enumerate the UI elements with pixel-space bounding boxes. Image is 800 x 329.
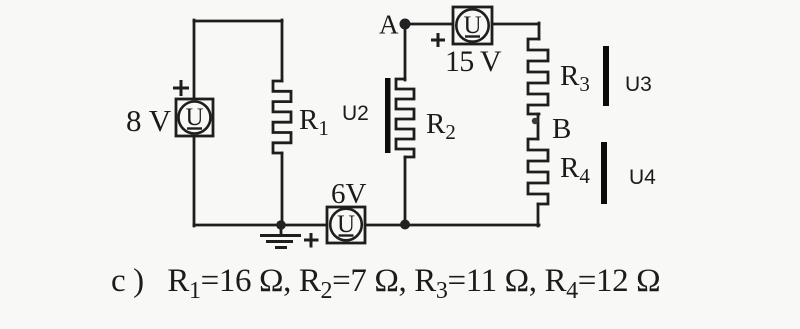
svg-text:U: U bbox=[337, 211, 355, 238]
svg-text:U4: U4 bbox=[629, 166, 656, 189]
resistor R2 bbox=[396, 79, 414, 157]
wire node A to 15V source bbox=[408, 23, 453, 26]
svg-text:8 V: 8 V bbox=[126, 103, 172, 138]
svg-text:A: A bbox=[379, 10, 399, 40]
ground stub bbox=[280, 226, 283, 235]
wire bottom left segment bbox=[194, 224, 327, 227]
voltmeter bar U2 bbox=[385, 78, 391, 153]
wire node A down to resistor R2 bbox=[404, 24, 407, 80]
svg-text:U: U bbox=[185, 104, 203, 131]
junction dot below R2 bbox=[400, 220, 410, 230]
wire below resistor R2 to bottom wire bbox=[404, 157, 407, 226]
polarity + of 6V source bbox=[304, 233, 319, 248]
polarity + of 8V source bbox=[173, 80, 189, 96]
node A dot bbox=[400, 19, 411, 30]
junction dot below R1 bbox=[276, 220, 286, 230]
resistor R4 bbox=[528, 139, 548, 204]
wire below resistor R1 bbox=[281, 153, 284, 226]
wire right side of left loop upper (to resistor R1) bbox=[281, 20, 284, 81]
resistor R3 bbox=[528, 39, 548, 114]
svg-text:U2: U2 bbox=[342, 102, 369, 125]
voltmeter bar U3 bbox=[603, 46, 609, 106]
wire bottom middle segment (6V source to right branch corner) bbox=[365, 224, 539, 227]
voltage source U 6V (box, circle, U symbol) bbox=[327, 207, 365, 243]
svg-text:U3: U3 bbox=[625, 73, 652, 96]
voltage source U 8V (box, circle, U symbol) bbox=[176, 99, 213, 136]
wire left side lower (8V source to bottom wire) bbox=[193, 136, 196, 226]
svg-text:B: B bbox=[552, 113, 571, 145]
voltmeter bar U4 bbox=[601, 142, 607, 204]
svg-text:15 V: 15 V bbox=[445, 45, 502, 78]
svg-text:6V: 6V bbox=[331, 178, 367, 210]
wire top of left loop bbox=[194, 20, 282, 23]
wire right branch top (down to resistor R3) bbox=[538, 23, 541, 39]
polarity + of 15V source bbox=[431, 33, 445, 47]
node B dot bbox=[532, 118, 538, 124]
wire 15V source to right branch bbox=[492, 23, 539, 26]
svg-text:U: U bbox=[463, 12, 481, 39]
ground symbol bbox=[260, 236, 301, 248]
wire between R3 and R4 (node B region) bbox=[537, 114, 540, 139]
wire right branch bottom bbox=[537, 204, 540, 226]
resistor R1 bbox=[273, 81, 291, 153]
wire left side upper (top corner to 8V source) bbox=[193, 20, 196, 99]
voltage source U 15V (box, circle, U symbol) bbox=[453, 7, 492, 44]
